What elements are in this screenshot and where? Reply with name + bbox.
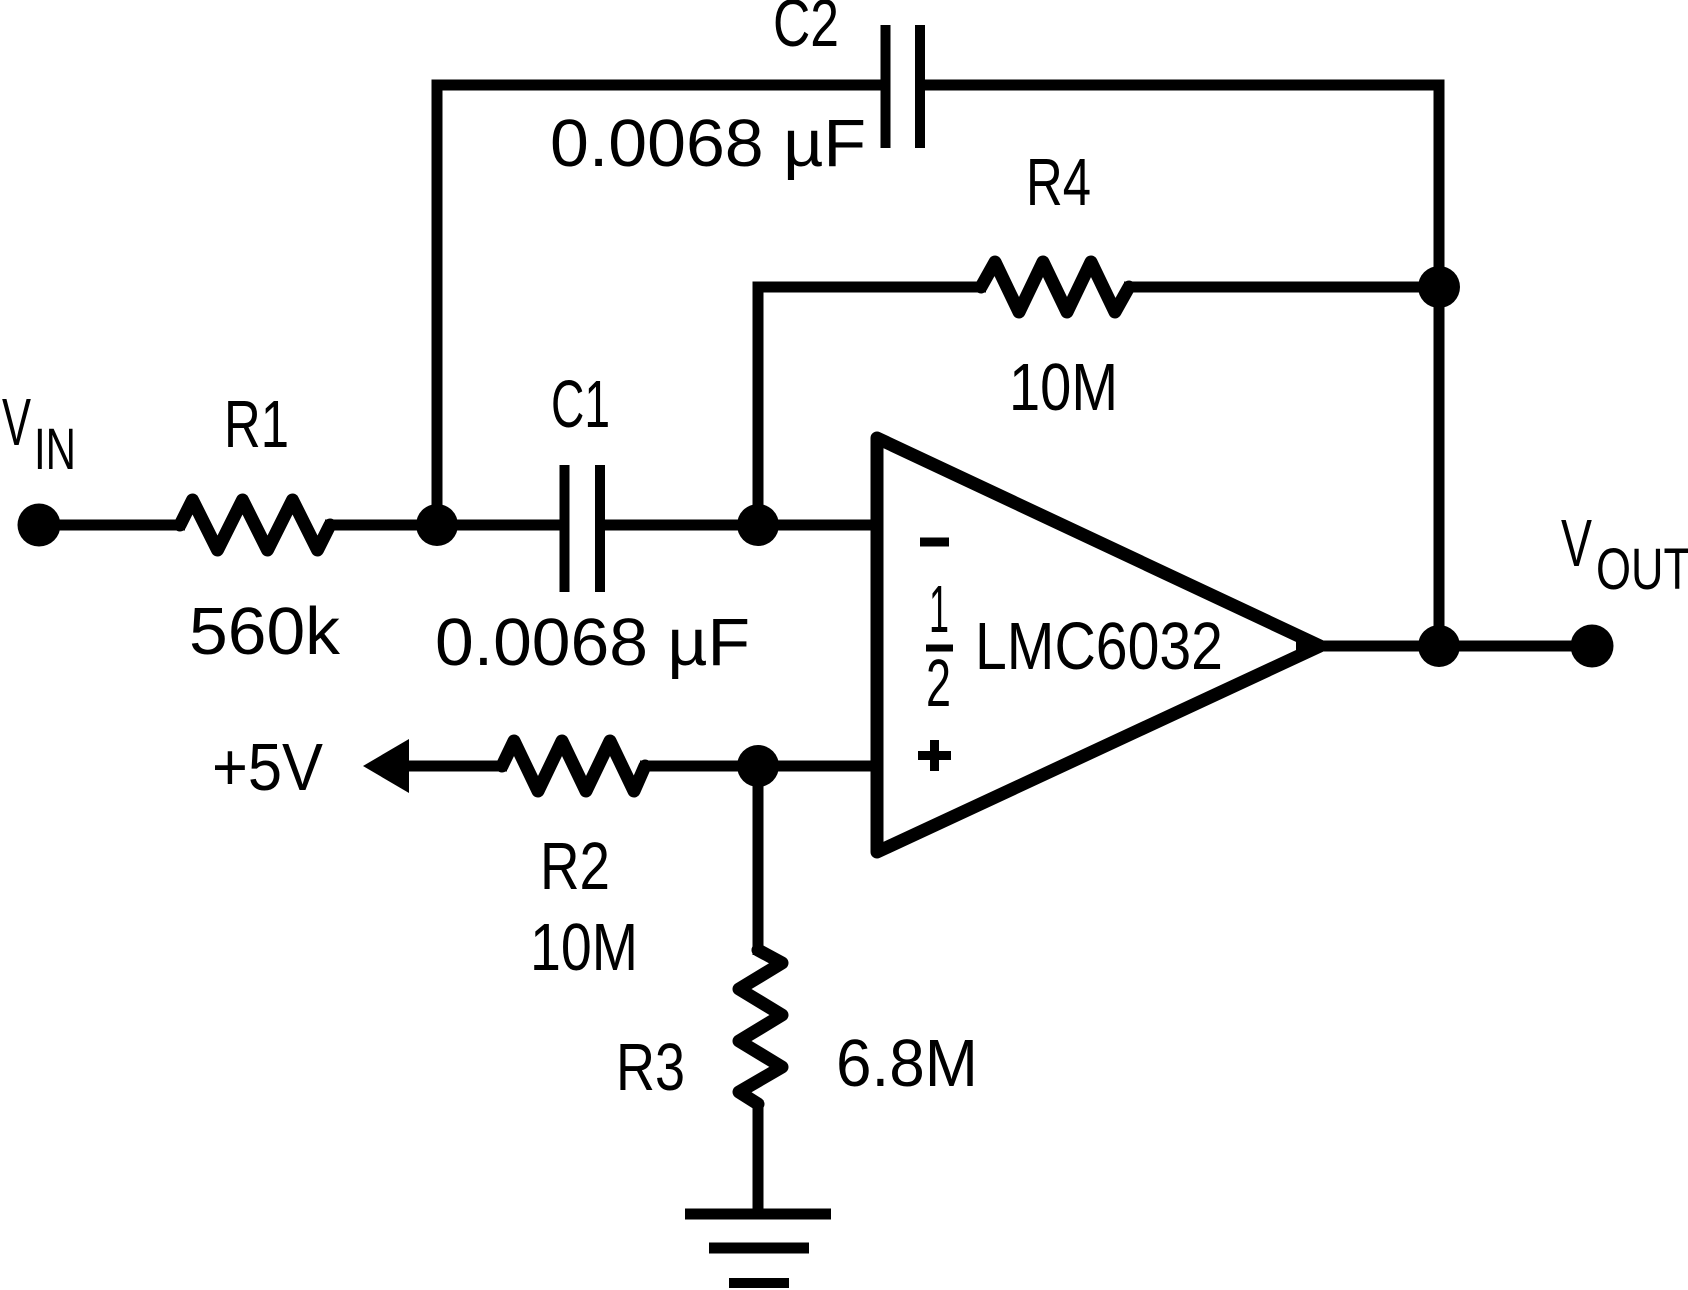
wire R1 to C1 [325, 520, 560, 531]
wire top left to C2 [432, 80, 882, 91]
svg-text:OUT: OUT [1596, 537, 1688, 602]
svg-text:0.0068 µF: 0.0068 µF [435, 605, 750, 680]
ground [685, 1214, 831, 1283]
wire op-amp output [1320, 641, 1592, 652]
svg-text:R2: R2 [540, 829, 610, 904]
wire R4 right [1124, 282, 1439, 293]
label V_OUT [1561, 506, 1688, 602]
wire C1 to op-amp inverting input [605, 520, 883, 531]
svg-text:1: 1 [929, 572, 949, 647]
svg-text:R1: R1 [224, 387, 289, 462]
node B junction dot [737, 504, 779, 546]
svg-text:2: 2 [926, 646, 951, 721]
resistor R1 [180, 500, 330, 550]
resistor R3 [739, 950, 782, 1104]
wire V_IN to R1 [39, 520, 185, 531]
op-amp apex fill [1296, 634, 1324, 658]
op-amp fraction 1/2 [926, 572, 953, 721]
terminal V_OUT [1571, 625, 1614, 668]
svg-text:V: V [1561, 506, 1592, 581]
wire R4 left [753, 282, 987, 293]
svg-text:0.0068 µF: 0.0068 µF [550, 106, 866, 181]
svg-text:LMC6032: LMC6032 [975, 609, 1223, 684]
node A junction dot [416, 504, 458, 546]
+5V arrowhead [363, 739, 409, 793]
svg-text:IN: IN [34, 417, 76, 482]
svg-text:10M: 10M [1009, 350, 1118, 425]
wire node B up to R4 branch [753, 287, 764, 525]
op-amp plus pin label [918, 740, 951, 771]
svg-text:560k: 560k [189, 594, 341, 669]
resistor R2 [502, 741, 645, 791]
svg-text:+5V: +5V [212, 730, 323, 805]
wire R2 to arrow [409, 761, 507, 772]
svg-text:R3: R3 [616, 1030, 685, 1105]
op-amp minus pin label [920, 538, 949, 547]
svg-text:10M: 10M [530, 910, 638, 985]
svg-text:C2: C2 [773, 0, 839, 61]
wire op-amp noninverting input to node E [640, 761, 883, 772]
op-amp U1 triangle [877, 438, 1320, 852]
svg-text:6.8M: 6.8M [836, 1026, 978, 1101]
resistor R4 [981, 262, 1129, 312]
capacitor C2 [881, 25, 926, 148]
wire node E down to R3 [753, 766, 764, 955]
label V_IN [2, 385, 76, 482]
wire right vertical from top to output [1434, 85, 1445, 646]
wire R3 to ground [753, 1100, 764, 1214]
node D junction dot [1418, 625, 1460, 667]
svg-text:C1: C1 [551, 367, 610, 442]
svg-text:V: V [2, 385, 31, 460]
svg-text:R4: R4 [1026, 145, 1091, 220]
wire node A up to C2 branch [432, 85, 443, 525]
capacitor C1 [560, 465, 606, 592]
wire C2 to right vertical [925, 80, 1445, 91]
node E junction dot [737, 745, 779, 787]
node C junction dot [1418, 266, 1460, 308]
terminal V_IN [18, 504, 61, 547]
